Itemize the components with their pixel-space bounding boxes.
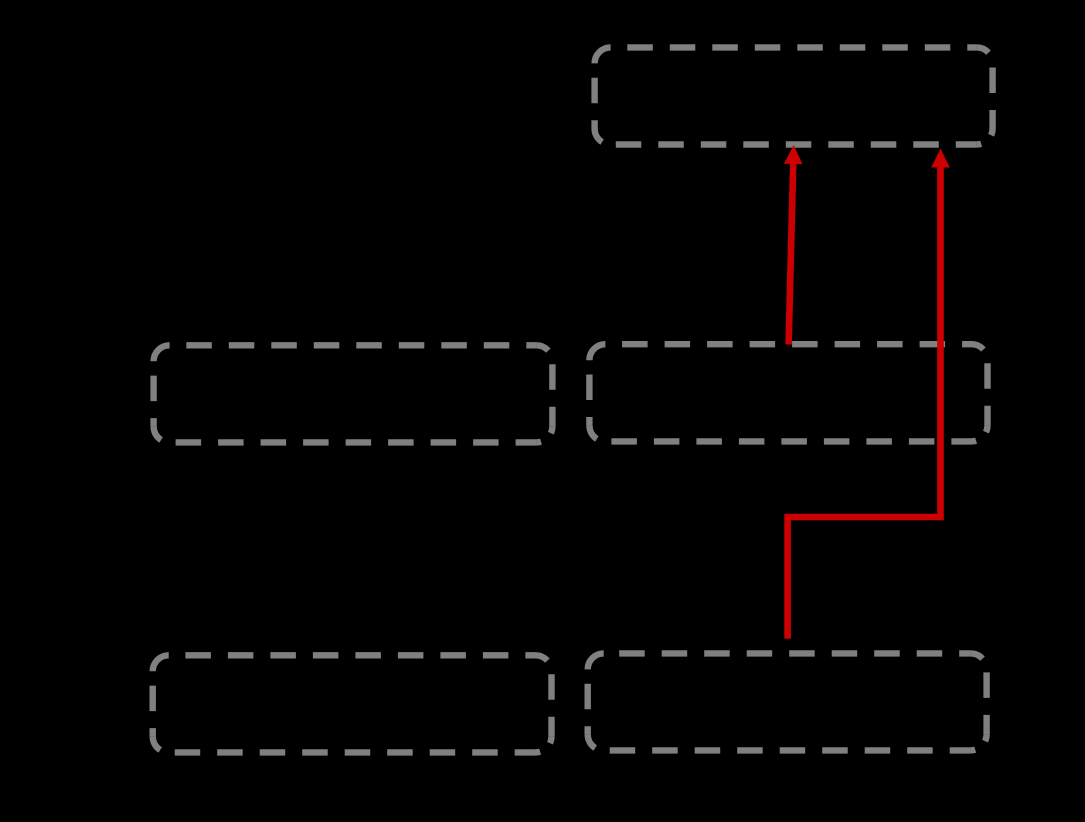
node middle-right box (dashed rounded rect) — [589, 344, 987, 441]
node bottom-right box (dashed rounded rect) — [588, 653, 987, 750]
edge arrow from middle-right box to top box (red) — [784, 145, 803, 345]
edge arrow from bottom-right box to top box (red, elbow) — [788, 149, 950, 639]
node bottom-left box (dashed rounded rect) — [153, 655, 552, 752]
node top box (dashed rounded rect) — [595, 47, 993, 144]
node middle-left box (dashed rounded rect) — [154, 345, 553, 442]
